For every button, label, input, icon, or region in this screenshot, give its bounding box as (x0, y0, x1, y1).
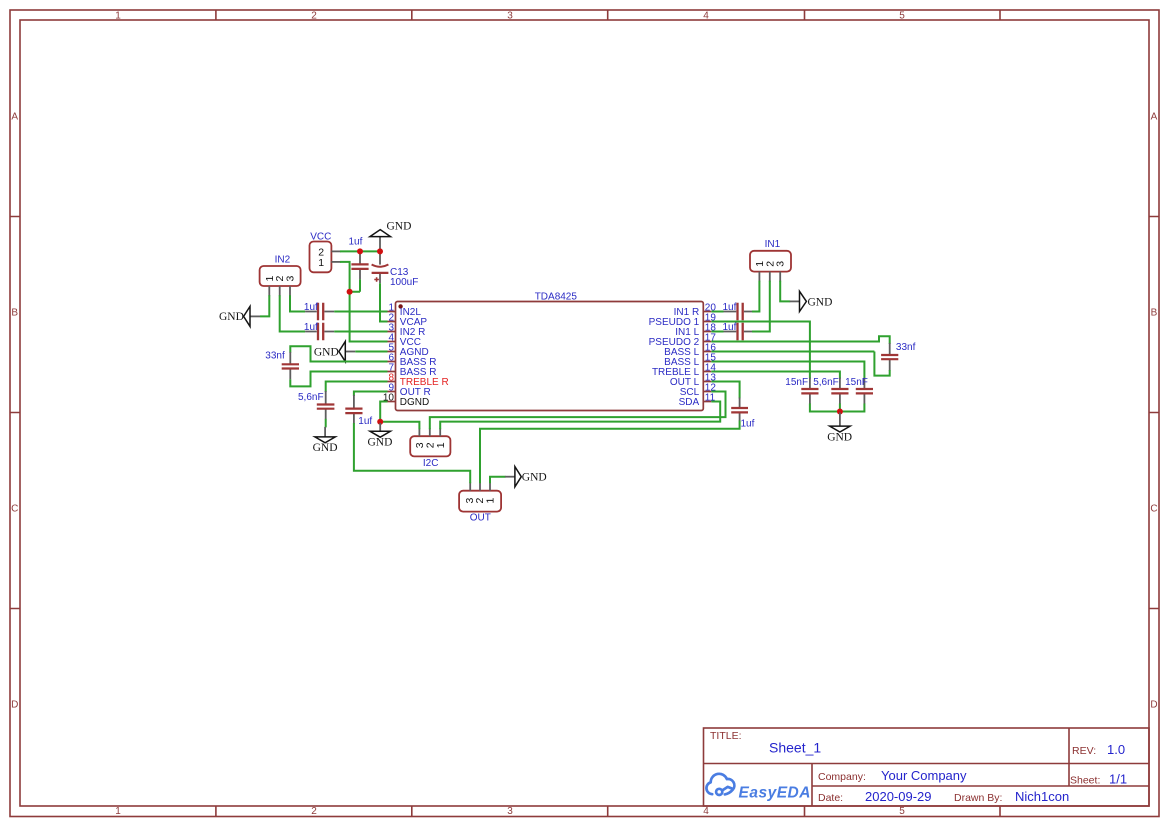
U1 right pin numbers 11-20 (705, 302, 717, 403)
svg-text:B: B (11, 308, 18, 319)
svg-text:REV:: REV: (1072, 745, 1096, 757)
svg-text:3: 3 (507, 11, 513, 22)
svg-text:100uF: 100uF (390, 277, 418, 288)
wire C13 bottom to U1 pin2 VCAP (380, 283, 388, 321)
svg-text:GND: GND (387, 220, 412, 232)
svg-text:1uf: 1uf (358, 416, 372, 427)
svg-text:D: D (1150, 700, 1157, 711)
wire U1 pin9 OUT R to 1uf cap (354, 392, 388, 397)
svg-text:1/1: 1/1 (1109, 771, 1127, 786)
ground flag GND (IN2) (219, 306, 260, 326)
ground symbol GND (trio bus) (827, 413, 852, 444)
svg-text:GND: GND (219, 311, 244, 323)
svg-text:2: 2 (311, 806, 317, 817)
svg-text:5,6nF: 5,6nF (813, 377, 839, 388)
wire U1 pin13 OUT L to 1uf cap (711, 382, 739, 399)
svg-text:15nF: 15nF (785, 377, 808, 388)
ground symbol GND (below DGND junction) (368, 423, 393, 448)
svg-text:GND: GND (522, 472, 547, 484)
svg-text:4: 4 (703, 11, 709, 22)
wire cap to IN1 pin1 (752, 281, 759, 312)
capacitor 33nf (right) (881, 342, 915, 371)
capacitor 1uf (IN2R coupling) (304, 322, 334, 340)
ground flag GND (AGND pin5) (314, 342, 355, 362)
capacitor 1uf (IN1 R coupling) (723, 302, 754, 320)
capacitor C13 100uF electrolytic (372, 252, 419, 287)
svg-text:5: 5 (899, 11, 905, 22)
svg-text:1.0: 1.0 (1107, 742, 1125, 757)
wire 1uf bottom to VCC net (350, 279, 360, 291)
wire 33nf bottom to U1 pin16 BASS L (711, 352, 889, 376)
svg-text:C: C (1150, 504, 1157, 515)
junction dot DGND (377, 419, 383, 425)
capacitor 1uf (OUT R coupling) (345, 395, 372, 427)
wire 1uf to OUT pin2 (480, 421, 740, 484)
svg-text:5,6nF: 5,6nF (298, 392, 324, 403)
svg-text:2020-09-29: 2020-09-29 (865, 789, 932, 804)
wire IN2 pin1 to ground flag (260, 295, 269, 316)
svg-text:Sheet_1: Sheet_1 (769, 740, 821, 756)
wire IN2 pin2 to coupling cap (280, 295, 305, 331)
svg-text:IN1: IN1 (765, 239, 781, 250)
svg-text:A: A (11, 111, 18, 122)
capacitor 1uf (IN1 L coupling) (723, 322, 754, 340)
wire U1 pin14 TREBLE L to 5,6nF (711, 372, 840, 379)
wire 5,6nF bottom to ground flag (325, 419, 327, 428)
U1 right pin stubs (703, 312, 711, 402)
wire 1uf to OUT pin3 (354, 423, 470, 483)
svg-text:GND: GND (368, 436, 393, 448)
junction dot VCC net (347, 289, 353, 295)
svg-text:1: 1 (485, 498, 497, 504)
svg-text:1uf: 1uf (349, 236, 363, 247)
svg-text:1: 1 (318, 257, 324, 269)
svg-text:Company:: Company: (818, 771, 866, 783)
junction dot trio bus (837, 409, 843, 415)
wire U1 pin11 SDA to I2C pin1 (440, 402, 720, 430)
connector VCC (310, 232, 341, 273)
svg-text:SDA: SDA (679, 397, 700, 408)
ground symbol GND (below 5,6nF) (313, 427, 338, 454)
capacitor 1uf (VCC decoupling) (349, 236, 369, 279)
svg-text:1: 1 (115, 806, 121, 817)
svg-text:Your Company: Your Company (881, 768, 967, 783)
svg-text:5: 5 (899, 806, 905, 817)
TITLE BLOCK (704, 728, 1150, 806)
wire U1 pin8 TREBLE R to 5,6nF (326, 382, 388, 393)
wire VCC pin2 to GND rail (340, 250, 380, 252)
SCHEMATIC (219, 220, 916, 523)
wire ground bus of trio (810, 404, 865, 412)
svg-text:Sheet:: Sheet: (1070, 774, 1100, 786)
svg-text:Date:: Date: (818, 792, 843, 804)
wire 33nf bottom to U1 pin7 BASS R (290, 372, 387, 387)
svg-text:GND: GND (313, 442, 338, 454)
wire IN2 pin3 to coupling cap (290, 295, 305, 311)
wire U1 pin10 DGND down to junction (380, 402, 387, 422)
wire to U1 pin1 IN2L (334, 311, 387, 313)
connector OUT (459, 482, 501, 523)
U1 left pin numbers 1-10 (383, 302, 395, 403)
wire U1 pin19 PSEUDO 1 to 15nF (711, 322, 810, 379)
ground flag GND (OUT) (505, 467, 547, 487)
svg-text:33nf: 33nf (265, 351, 285, 362)
connector I2C (410, 428, 450, 469)
svg-text:1uf: 1uf (304, 322, 318, 333)
svg-text:1uf: 1uf (723, 322, 737, 333)
svg-text:3: 3 (775, 261, 787, 267)
U1 right pin names (649, 307, 700, 408)
svg-text:Nich1con: Nich1con (1015, 789, 1069, 804)
svg-text:OUT: OUT (470, 513, 491, 524)
svg-text:3: 3 (507, 806, 513, 817)
ground flag GND (top) (370, 220, 412, 252)
EasyEDA logo (706, 774, 734, 795)
svg-text:2: 2 (311, 11, 317, 22)
svg-text:15nF: 15nF (845, 377, 868, 388)
svg-text:C: C (11, 504, 18, 515)
wire AGND flag to U1 pin5 (355, 351, 387, 353)
capacitor 33nf (left) (265, 351, 299, 380)
U1 left pin stubs (388, 312, 396, 402)
wire DGND junction to I2C pin3 (380, 422, 419, 429)
capacitor 15nF (right of trio) (845, 377, 873, 404)
svg-text:1uf: 1uf (741, 419, 755, 430)
svg-text:I2C: I2C (423, 458, 439, 469)
svg-text:4: 4 (703, 806, 709, 817)
svg-text:EasyEDA: EasyEDA (739, 785, 811, 802)
capacitor 1uf (IN2L coupling) (304, 302, 334, 320)
op-amp U1 TDA8425 body (396, 291, 704, 410)
wire U1 pin20 IN1 R to coupling cap (711, 311, 723, 313)
capacitor 1uf (OUT L coupling) (731, 398, 754, 430)
connector IN2 (260, 255, 301, 297)
svg-text:IN2: IN2 (275, 255, 291, 266)
wire VCC pin1 down to U1 pin4 VCC (340, 262, 388, 342)
capacitor 5,6nF (left) (298, 391, 334, 419)
svg-text:1: 1 (435, 442, 447, 448)
capacitor 5,6nF (middle of trio) (813, 377, 848, 404)
svg-text:GND: GND (827, 431, 852, 443)
svg-text:GND: GND (314, 346, 339, 358)
svg-text:33nf: 33nf (896, 342, 916, 353)
ground flag GND (IN1) (790, 291, 833, 311)
wire U1 pin17 PSEUDO 2 to 33nf (711, 336, 889, 344)
capacitor 15nF (left of trio) (785, 377, 818, 404)
svg-text:D: D (11, 700, 18, 711)
wire U1 pin18 IN1 L to coupling cap (711, 331, 723, 333)
junction dots VCC rail (357, 248, 363, 254)
svg-text:TDA8425: TDA8425 (535, 291, 578, 302)
wire U1 pin12 SCL to I2C pin2 (430, 392, 726, 430)
svg-text:VCC: VCC (310, 232, 331, 243)
svg-text:B: B (1151, 308, 1158, 319)
wire IN1 pin3 to ground flag (780, 281, 790, 302)
svg-text:1uf: 1uf (723, 302, 737, 313)
svg-text:A: A (1151, 111, 1158, 122)
wire U1 pin15 BASS L to 15nF (711, 362, 864, 379)
svg-text:DGND: DGND (400, 397, 429, 408)
svg-text:TITLE:: TITLE: (710, 730, 742, 742)
wire OUT pin1 to ground flag (490, 477, 506, 484)
wire cap to IN1 pin2 (752, 281, 770, 332)
wire to U1 pin3 IN2 R (334, 331, 387, 333)
wire U1 pin6 BASS R to 33nf top (290, 346, 387, 361)
U1 left pin names (400, 307, 449, 408)
svg-text:1: 1 (115, 11, 121, 22)
connector IN1 (750, 239, 791, 282)
svg-text:GND: GND (808, 296, 833, 308)
svg-text:3: 3 (285, 276, 297, 282)
svg-text:1uf: 1uf (304, 302, 318, 313)
svg-text:Drawn By:: Drawn By: (954, 792, 1002, 804)
